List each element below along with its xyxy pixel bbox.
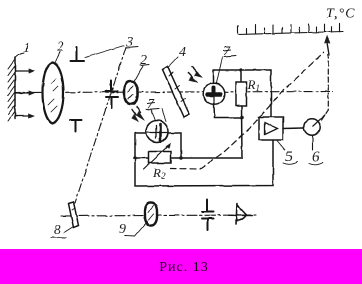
resistor R1 bbox=[236, 70, 247, 158]
wire: phototransistor bottom lead bbox=[214, 105, 242, 118]
mechanical link dashed: R2 to scale pointer bbox=[170, 52, 324, 169]
lens 2' (small lens on main axis) bbox=[125, 82, 138, 105]
label 3 bbox=[125, 35, 138, 50]
leader line to label 3 bbox=[85, 46, 124, 58]
svg-text:4: 4 bbox=[179, 45, 186, 60]
aperture on lower axis bbox=[202, 200, 214, 230]
aperture 3 on main axis (slit) bbox=[106, 80, 118, 108]
main optical axis bbox=[15, 92, 333, 93]
meter 6 bbox=[304, 115, 325, 135]
svg-text:R2: R2 bbox=[152, 165, 166, 181]
node right of R2 bbox=[179, 156, 183, 160]
svg-text:8: 8 bbox=[54, 223, 61, 238]
svg-text:5: 5 bbox=[285, 149, 293, 165]
wire amplifier to meter 6 bbox=[283, 127, 303, 130]
temperature scale bbox=[238, 23, 343, 34]
stop mark upper (inverted T) bbox=[71, 47, 85, 61]
wire: right vertical down to amplifier top bbox=[270, 70, 272, 117]
svg-text:2: 2 bbox=[57, 40, 64, 55]
phototransistor 7 (upper) bbox=[203, 83, 225, 105]
label 6 bbox=[309, 136, 323, 166]
pointer arrow at scale bbox=[325, 36, 331, 56]
label 2' bbox=[135, 53, 150, 82]
label 5 bbox=[277, 141, 297, 166]
stop mark lower (T) bbox=[70, 120, 82, 132]
wire: R1 bottom to R2 right node bbox=[181, 157, 242, 159]
beamsplitter plate 4 bbox=[163, 67, 190, 118]
resistor R2 (variable) bbox=[144, 144, 172, 170]
svg-text:9: 9 bbox=[119, 222, 126, 237]
folded axis (dash-dot diagonal from label 3 to plate 8) bbox=[75, 47, 126, 203]
label 9 bbox=[119, 222, 147, 237]
label 8 bbox=[51, 223, 74, 238]
node left of R2 bbox=[133, 156, 137, 160]
label 1 bbox=[15, 41, 31, 59]
lens 2 (large condenser) bbox=[43, 63, 64, 124]
wall (diffuse source, element 1) bbox=[8, 58, 15, 122]
caption bar bbox=[0, 249, 362, 284]
beam arrows plate 4 to phototransistor 7 (upper) bbox=[188, 67, 203, 83]
phototransistor 7 (lower) bbox=[146, 121, 168, 143]
beam arrows lens 2' to phototransistor 7 (lower) bbox=[132, 107, 145, 122]
plate 8 (lower path) bbox=[69, 202, 79, 228]
label 4 bbox=[168, 45, 187, 68]
svg-text:1: 1 bbox=[23, 41, 30, 56]
label 7 (upper) bbox=[217, 44, 237, 83]
svg-text:T,°C: T,°C bbox=[326, 7, 356, 22]
svg-text:6: 6 bbox=[312, 149, 320, 165]
node at R1 top bbox=[239, 68, 243, 72]
phototransistor 7 (lower) frame wires bbox=[135, 133, 147, 186]
mechanical link dashed: meter 6 needle to pointer bbox=[322, 55, 329, 120]
light arrows from wall bbox=[15, 69, 35, 118]
svg-text:R1: R1 bbox=[247, 77, 260, 93]
wire: phototransistor top to R1 top corner bbox=[214, 70, 272, 88]
label 2 (lens 2) bbox=[56, 40, 65, 62]
bottom return wire to amplifier bbox=[135, 140, 273, 186]
eye symbol (observer) bbox=[229, 204, 253, 225]
label 7 (lower) bbox=[146, 97, 166, 122]
wire through R2 bbox=[135, 157, 181, 159]
amplifier 5 bbox=[259, 117, 283, 140]
bottom optical axis bbox=[61, 215, 258, 216]
node at R1 bottom bbox=[240, 116, 244, 120]
lens 9 bbox=[145, 203, 157, 226]
